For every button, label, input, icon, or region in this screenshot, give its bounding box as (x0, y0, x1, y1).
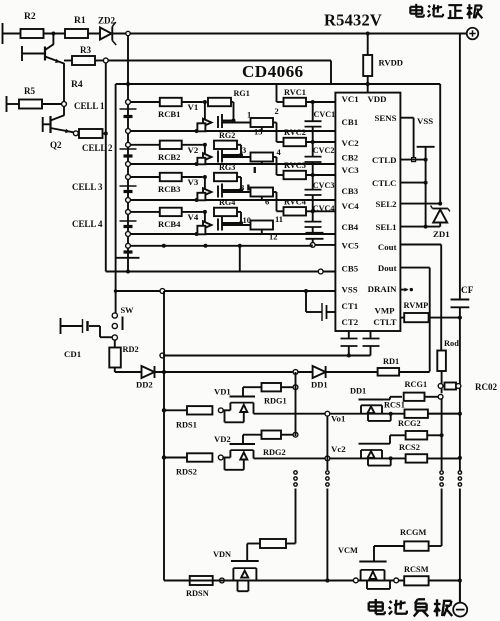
wire CT rail (164, 355, 371, 357)
svg-text:R1: R1 (74, 15, 86, 26)
timing capacitors under IC (348, 331, 350, 339)
svg-text:VSS: VSS (342, 285, 358, 295)
svg-text:SEL2: SEL2 (375, 199, 397, 209)
svg-text:RCB2: RCB2 (158, 152, 180, 162)
svg-text:R2: R2 (24, 11, 36, 22)
svg-text:R3: R3 (80, 45, 92, 55)
svg-text:RG1: RG1 (234, 89, 250, 98)
wire cell feed row 4 (126, 210, 131, 215)
svg-text:VCM: VCM (338, 546, 358, 555)
svg-text:ZD1: ZD1 (433, 229, 450, 239)
svg-text:CD4066: CD4066 (242, 62, 304, 81)
resistor RG4 (214, 208, 237, 216)
wire Cout (400, 244, 441, 246)
svg-text:V4: V4 (188, 212, 199, 222)
svg-text:VC4: VC4 (342, 201, 360, 211)
svg-text:DRAIN: DRAIN (368, 284, 397, 294)
node CB5 connector (318, 269, 323, 274)
resistor R5 (6, 96, 8, 112)
wire switch output row 1 (222, 122, 251, 124)
svg-text:VD1: VD1 (214, 387, 231, 397)
battery positive terminal (467, 28, 479, 40)
resistor RCB2 (160, 141, 182, 149)
svg-text:RDG1: RDG1 (264, 397, 287, 406)
svg-text:RC02: RC02 (475, 382, 498, 392)
svg-text:RCS2: RCS2 (399, 443, 420, 452)
svg-text:VC2: VC2 (342, 138, 360, 148)
node CELL 2 and cell2 resistor (73, 131, 78, 136)
wire to RVC4 (273, 191, 277, 193)
balance resistor row 3 (251, 188, 274, 197)
svg-text:DD1: DD1 (350, 387, 366, 396)
resistor R2 (21, 29, 44, 38)
capacitor to VC5 rail (306, 232, 324, 234)
wire Vc2 (254, 457, 458, 459)
svg-text:Cout: Cout (378, 242, 397, 252)
wire cell feed row 3 (126, 175, 131, 180)
svg-text:CVC4: CVC4 (313, 204, 335, 213)
wire VDD rail y=84 (116, 83, 441, 85)
wire SEL2 (400, 203, 440, 205)
svg-text:CB1: CB1 (342, 117, 359, 127)
svg-text:SENS: SENS (374, 113, 396, 123)
left ladder bus (163, 291, 165, 581)
stack bottom plate (124, 250, 133, 253)
transistor Q2 (63, 107, 65, 116)
svg-text:RDS1: RDS1 (176, 420, 197, 429)
wire CTLD (400, 159, 425, 161)
balance resistor row 1 (251, 118, 274, 127)
wire to RVC2 (273, 122, 277, 124)
switch SW (115, 312, 117, 314)
svg-text:VSS: VSS (417, 116, 433, 126)
svg-text:VC3: VC3 (342, 165, 360, 175)
wire cell feed row 1 (126, 100, 131, 105)
wire CB2 sense (126, 162, 131, 167)
svg-text:SEL1: SEL1 (375, 222, 396, 232)
svg-text:RVDD: RVDD (379, 58, 403, 68)
svg-text:CTLD: CTLD (372, 155, 396, 165)
svg-text:CB5: CB5 (342, 264, 359, 274)
svg-text:1: 1 (247, 110, 251, 120)
svg-text:R5: R5 (24, 86, 36, 96)
resistor RVC3 (277, 174, 284, 176)
resistor RDG1 (242, 387, 244, 396)
svg-text:R4: R4 (71, 79, 83, 90)
svg-text:RCB3: RCB3 (158, 184, 180, 194)
VSS tee bar (417, 146, 435, 148)
resistor RDS1 (187, 406, 212, 414)
svg-text:CB2: CB2 (342, 153, 359, 163)
svg-text:RCG2: RCG2 (398, 419, 421, 428)
svg-text:RDS2: RDS2 (176, 468, 197, 477)
wire VSS to IC (116, 290, 336, 292)
svg-text:V3: V3 (188, 177, 199, 187)
resistor Rod (437, 351, 446, 372)
wire cell feed row 2 (126, 142, 131, 147)
wire switch output row 4 (222, 224, 251, 226)
svg-text:RD2: RD2 (123, 345, 139, 354)
resistor RVC4 (277, 210, 284, 212)
switch V3 (204, 177, 206, 192)
svg-text:CB3: CB3 (342, 186, 359, 196)
resistor RDS2 (187, 453, 212, 461)
capacitor CVC1 (312, 102, 314, 121)
wire R3 node to CD4066 box top (108, 60, 331, 62)
wire switch output row 2 (222, 156, 251, 158)
svg-text:6: 6 (265, 197, 269, 207)
resistor RD1 (378, 368, 400, 376)
svg-text:VDN: VDN (213, 550, 231, 559)
matrix bottom rail VC5 (128, 245, 310, 247)
wire RDS1 (162, 408, 166, 412)
ellipsis dots (294, 471, 297, 474)
svg-text:RCS1: RCS1 (384, 401, 405, 410)
switch V1 (204, 102, 206, 123)
diode DD1 (313, 366, 326, 378)
svg-text:RCB4: RCB4 (158, 219, 181, 229)
resistor RCB4 (160, 208, 182, 216)
svg-text:RVMP: RVMP (404, 301, 429, 310)
wire switch output row 3 (222, 191, 251, 193)
resistor RC02 (438, 384, 443, 389)
battery negative terminal (459, 581, 461, 603)
mosfet VD1 (223, 409, 230, 411)
svg-text:Vc2: Vc2 (331, 444, 346, 454)
svg-text:DD2: DD2 (136, 380, 153, 390)
svg-text:CF: CF (461, 286, 474, 296)
svg-text:CD1: CD1 (64, 349, 81, 359)
svg-text:CELL 1: CELL 1 (74, 101, 105, 111)
mosfet VD2 (223, 457, 230, 459)
switch V4 (204, 212, 206, 225)
resistor RCB3 (160, 173, 182, 181)
svg-text:12: 12 (269, 232, 277, 242)
capacitor CVC3 (312, 175, 314, 190)
DRAIN stub (400, 289, 407, 291)
svg-text:R5432V: R5432V (324, 11, 382, 30)
diode ZD2 (100, 28, 112, 40)
svg-text:RG3: RG3 (219, 163, 235, 172)
node R3 output (95, 60, 103, 62)
wire Q1 emitter down (63, 63, 65, 102)
wire CTLC (400, 182, 425, 184)
bottom rail (164, 580, 460, 582)
wire top positive rail (3, 33, 467, 35)
resistor RVC2 (277, 141, 284, 143)
wire R3 node down left sense column (105, 63, 107, 272)
svg-text:VDD: VDD (367, 94, 386, 104)
capacitor CVC2 (312, 142, 314, 157)
svg-text:RDG2: RDG2 (263, 448, 286, 457)
wire tap to matrix bottom rail (239, 246, 241, 272)
svg-text:CELL 2: CELL 2 (82, 143, 113, 153)
svg-text:RVC2: RVC2 (284, 128, 306, 137)
svg-text:RG2: RG2 (219, 131, 235, 140)
svg-text:RG4: RG4 (219, 198, 235, 207)
resistor R3 (64, 60, 72, 62)
svg-text:RVC1: RVC1 (284, 88, 306, 97)
svg-text:VD2: VD2 (214, 434, 231, 444)
balance resistor row 2 (251, 153, 274, 162)
svg-text:CTLT: CTLT (373, 317, 396, 327)
svg-text:DD1: DD1 (311, 380, 328, 390)
svg-text:Vo1: Vo1 (331, 414, 345, 424)
svg-text:RDSN: RDSN (186, 589, 209, 598)
resistor RVC1 (277, 101, 284, 103)
svg-text:RD1: RD1 (383, 357, 399, 366)
wire rail to VDD-net drop at x=128 (127, 34, 129, 85)
svg-text:CT1: CT1 (342, 301, 359, 311)
resistor RDSN (190, 576, 213, 585)
wire SENS (400, 117, 413, 119)
svg-text:CVC2: CVC2 (313, 146, 335, 155)
resistor RCB1 (160, 98, 182, 106)
wire CB1 sense (126, 129, 131, 134)
battery stack bus (127, 84, 129, 258)
svg-text:CB4: CB4 (342, 222, 359, 232)
wire SEL1 (400, 226, 440, 228)
Vo column (326, 416, 328, 470)
svg-text:13: 13 (254, 127, 262, 137)
capacitor CF (459, 34, 461, 300)
svg-text:RVC3: RVC3 (284, 161, 306, 170)
battery positive label 电池正极 (415, 4, 417, 17)
wire CB3 sense (126, 198, 131, 203)
svg-text:VC1: VC1 (342, 94, 359, 104)
battery negative label 电池负极 (375, 599, 377, 614)
transistor Q1 (52, 34, 54, 45)
wire to RVC3 (273, 156, 277, 158)
resistor RCG2 (406, 431, 428, 440)
resistor RDG2 (242, 435, 244, 444)
svg-text:CT2: CT2 (342, 317, 359, 327)
svg-text:RCG1: RCG1 (405, 380, 428, 389)
svg-text:Q2: Q2 (50, 140, 62, 150)
cell 3 battery (120, 185, 137, 187)
resistor RCG1 (404, 393, 425, 401)
wire RVDD (367, 34, 369, 56)
svg-text:CELL 3: CELL 3 (72, 182, 103, 192)
svg-text:11: 11 (275, 214, 283, 224)
svg-text:3: 3 (242, 145, 246, 155)
svg-text:V1: V1 (188, 102, 199, 112)
svg-text:SW: SW (121, 306, 135, 315)
capacitor CD1 (60, 318, 62, 334)
svg-text:VC5: VC5 (342, 241, 360, 251)
resistor RG2 (214, 141, 237, 149)
svg-text:2: 2 (275, 106, 279, 116)
resistor RVMP (400, 317, 404, 319)
mosfet cell second (359, 443, 383, 445)
resistor R1 (65, 29, 88, 38)
balance resistor row 4 (251, 221, 274, 230)
resistor RG1 (208, 98, 231, 106)
svg-text:10: 10 (243, 215, 251, 225)
wire cell sense bottom to CB5 (106, 271, 336, 273)
wire RVC1 feed from VDD rail (276, 84, 278, 102)
svg-text:V2: V2 (188, 145, 199, 155)
svg-text:RCB1: RCB1 (158, 109, 180, 119)
switch V2 (204, 145, 206, 157)
svg-text:8: 8 (240, 183, 244, 193)
mosfet VDN (260, 539, 286, 548)
diode DD2 (142, 366, 155, 378)
svg-text:VMP: VMP (374, 306, 395, 316)
capacitor CT1 (327, 311, 336, 313)
svg-text:RCSM: RCSM (404, 565, 429, 574)
resistor RG3 (214, 173, 237, 181)
resistor RCGM (373, 546, 375, 562)
cell 2 battery (120, 148, 137, 150)
svg-text:CELL 4: CELL 4 (72, 219, 103, 229)
svg-text:ZD2: ZD2 (98, 16, 116, 26)
wire Dout (400, 267, 429, 269)
cell 1 battery (120, 108, 137, 110)
svg-text:CVC3: CVC3 (313, 181, 335, 190)
diode ZD1 (439, 84, 441, 204)
svg-text:RCGM: RCGM (400, 528, 427, 537)
node gate column top (293, 370, 298, 375)
node A junction (51, 32, 55, 36)
svg-text:Dout: Dout (378, 263, 397, 273)
svg-text:Rod: Rod (444, 339, 459, 348)
svg-text:CTLC: CTLC (372, 178, 396, 188)
gate column (295, 372, 297, 436)
cell 4 battery (120, 220, 137, 222)
wire Vo1 (254, 413, 458, 415)
resistor RD2 (112, 335, 117, 340)
svg-text:CVC1: CVC1 (314, 110, 336, 119)
wire CB4 sense (126, 232, 131, 237)
wire VSS left drop x=115.6 (115, 84, 117, 313)
capacitor CVC4 (312, 211, 314, 221)
wire RDS2 (162, 455, 166, 459)
node CELL 1 (62, 102, 67, 107)
svg-text:RVC4: RVC4 (284, 197, 307, 206)
wire gate column right (438, 394, 443, 399)
